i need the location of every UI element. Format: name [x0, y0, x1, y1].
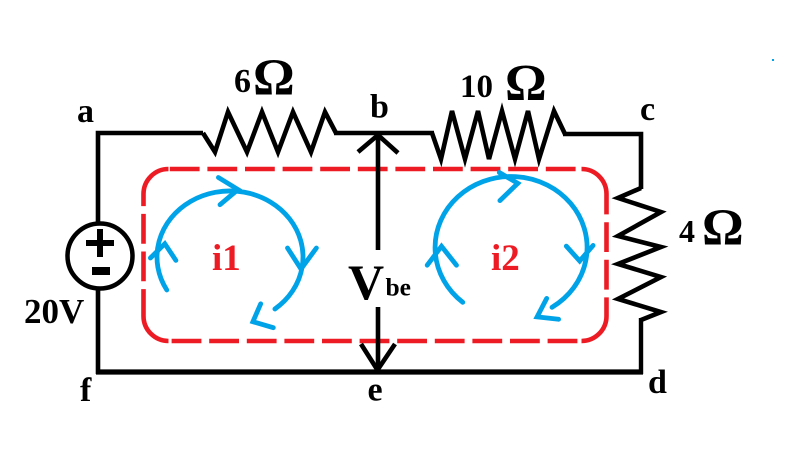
svg-text:c: c — [640, 91, 655, 128]
resistor 6 ohm (zigzag a-b) — [203, 112, 336, 152]
mesh current i2 top arrowhead (right) — [499, 173, 518, 201]
wire R10 to node c and down to R4 — [563, 134, 641, 189]
resistor 4 ohm (vertical zigzag c-d) — [618, 188, 661, 320]
wire R4 to node d (right lower vertical) — [639, 318, 643, 374]
svg-text:Ω: Ω — [702, 200, 744, 257]
svg-text:10: 10 — [460, 69, 493, 105]
mesh current i2 terminal arrowhead (down-left) — [537, 298, 559, 319]
voltage source 20V circle — [68, 224, 133, 289]
wire R6 to R10 through node b — [334, 131, 434, 136]
svg-text:b: b — [370, 89, 389, 126]
svg-text:V: V — [348, 254, 384, 310]
svg-text:be: be — [386, 273, 412, 302]
svg-text:a: a — [77, 93, 94, 130]
Vbe arrow top arrowhead at node b — [358, 135, 398, 153]
voltage source plus sign — [86, 229, 114, 257]
resistor 10 ohm (zigzag b-c) — [432, 111, 565, 159]
mesh current i1 top arrowhead (right) — [218, 178, 238, 205]
mesh current i1 left arrowhead (up) — [150, 244, 176, 261]
mesh boundary red dashed rounded rectangle — [144, 169, 607, 341]
mesh current i1 arc (clockwise loop) — [157, 191, 303, 309]
mesh current i2 arc (clockwise loop) — [435, 176, 587, 307]
svg-text:d: d — [648, 364, 667, 401]
mesh current i2 right arrowhead (down) — [566, 245, 593, 261]
voltage source minus sign — [92, 267, 110, 275]
mesh current i1 right arrowhead (down) — [288, 248, 317, 269]
svg-text:i1: i1 — [212, 238, 241, 279]
svg-text:e: e — [368, 372, 383, 409]
wire f up to voltage source — [96, 270, 101, 374]
svg-text:i2: i2 — [491, 238, 520, 279]
svg-text:4: 4 — [679, 213, 695, 249]
svg-text:f: f — [80, 372, 92, 409]
mesh current i1 terminal arrowhead (down-left) — [253, 304, 273, 328]
svg-text:6: 6 — [234, 63, 251, 100]
Vbe arrow bottom arrowhead at node e — [361, 344, 395, 370]
Vbe arrow upper line — [376, 137, 381, 250]
mesh current i2 left arrowhead (up) — [427, 246, 456, 265]
svg-text:Ω: Ω — [253, 50, 295, 107]
bottom wire d-e-f — [96, 369, 643, 374]
Vbe arrow lower line — [376, 307, 381, 367]
wire a to voltage source (left top vertical + top-left horizontal a-to-R6) — [98, 133, 203, 240]
svg-text:20V: 20V — [24, 292, 84, 331]
svg-text:Ω: Ω — [505, 55, 547, 112]
stray blue speck artifact — [772, 59, 774, 61]
